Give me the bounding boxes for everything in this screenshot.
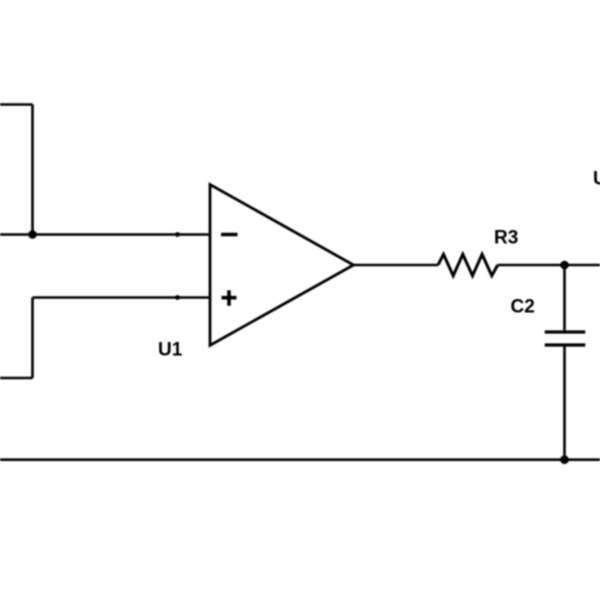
op-amp minus sign (221, 233, 238, 237)
wire left vertical from top corner down to inverting input net (31, 105, 34, 235)
wire left vertical up to non-inverting input (31, 298, 34, 379)
wire non-inverting input horizontal to op-amp (33, 296, 211, 299)
op-amp plus sign (222, 290, 237, 306)
pin dot op-amp inverting input pin end (175, 232, 180, 237)
svg-text:U2: U2 (593, 169, 600, 190)
node junction dot at R3/C2 output node (560, 261, 569, 270)
node junction dot at bottom rail (560, 455, 569, 464)
op-amp U1 triangle body (210, 185, 354, 346)
wire inverting input horizontal to op-amp (0, 233, 210, 236)
resistor R3 zigzag (438, 254, 498, 275)
svg-text:C2: C2 (511, 297, 535, 318)
wire top-left horizontal feedback segment (0, 103, 33, 106)
wire capacitor bottom lead (563, 346, 566, 460)
wire bottom ground rail (0, 458, 600, 461)
node junction dot at inverting input branch (28, 230, 37, 239)
pin dot op-amp non-inverting input pin end (175, 295, 180, 300)
wire resistor to right edge (498, 264, 600, 267)
capacitor C2 bottom plate (545, 343, 586, 346)
wire bottom-left horizontal segment (0, 377, 33, 380)
wire op-amp output to resistor (354, 264, 439, 267)
svg-text:R3: R3 (494, 228, 518, 249)
wire capacitor top lead (563, 265, 566, 330)
svg-text:U1: U1 (158, 340, 183, 361)
capacitor C2 top plate (545, 330, 586, 333)
